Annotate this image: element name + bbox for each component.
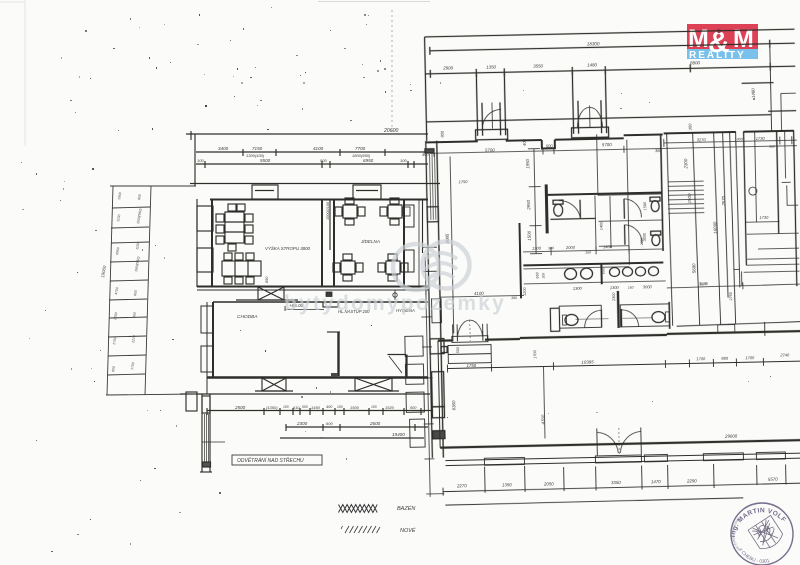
- svg-text:2500: 2500: [234, 405, 246, 410]
- lower wc band walls: [524, 281, 670, 332]
- svg-text:300: 300: [548, 246, 554, 250]
- svg-text:2740: 2740: [779, 352, 790, 357]
- svg-text:1580: 1580: [643, 201, 647, 210]
- svg-text:1730: 1730: [756, 136, 766, 141]
- svg-text:100: 100: [400, 158, 407, 163]
- svg-text:VÝŠKA STROPU 3800: VÝŠKA STROPU 3800: [265, 246, 311, 251]
- svg-text:880: 880: [721, 356, 729, 361]
- svg-text:2290: 2290: [686, 478, 697, 483]
- svg-text:2000: 2000: [640, 238, 644, 247]
- exterior steps X left: [255, 378, 293, 391]
- svg-text:20600: 20600: [383, 128, 399, 134]
- basins: [523, 263, 658, 286]
- svg-text:bytydomypozemky: bytydomypozemky: [284, 292, 506, 315]
- svg-text:2270: 2270: [456, 483, 467, 488]
- bottom windows row: [445, 452, 800, 466]
- rooms bottom wall: [197, 287, 428, 291]
- bottom dim line: [443, 460, 800, 496]
- svg-text:7700: 7700: [355, 146, 366, 151]
- hall dim line: [447, 357, 800, 372]
- svg-text:CHODBA: CHODBA: [237, 314, 258, 320]
- watermark: [284, 242, 506, 316]
- rooms top wall: [210, 199, 428, 201]
- wc middle block walls: [597, 133, 664, 265]
- wall face line: [426, 115, 771, 122]
- left boundary vertical: [425, 37, 427, 141]
- svg-text:M: M: [688, 25, 708, 53]
- top porch box left: [252, 185, 278, 199]
- main top wall: [426, 131, 794, 151]
- svg-text:4100: 4100: [313, 146, 324, 151]
- top porch box right: [353, 185, 381, 199]
- table B horizontal with chairs: [222, 253, 261, 284]
- svg-text:BAZÉN: BAZÉN: [397, 505, 415, 512]
- svg-text:1520: 1520: [385, 405, 395, 410]
- lower dim line right: [667, 281, 800, 291]
- bottom dim row 1: [207, 408, 433, 415]
- chodba interior partitions: [327, 332, 407, 377]
- top dim line right part: [664, 136, 797, 147]
- wc block top walls: [546, 182, 663, 233]
- jidelna table 3: [333, 254, 363, 281]
- top line: [425, 29, 795, 37]
- section mark: [393, 290, 397, 300]
- svg-text:16090: 16090: [712, 221, 717, 234]
- interior dim vertical x453: [450, 156, 454, 333]
- small boxes between plans: [405, 336, 425, 447]
- svg-text:500: 500: [456, 346, 460, 353]
- svg-text:2300: 2300: [683, 158, 688, 169]
- main middle wall y336: [438, 331, 800, 341]
- jidelna table 4: [378, 254, 408, 281]
- svg-text:6950: 6950: [363, 158, 374, 163]
- jidelna right wall: [404, 199, 414, 287]
- svg-text:1200: 1200: [523, 287, 527, 296]
- jidelna left wall: [333, 199, 335, 287]
- svg-text:400: 400: [522, 138, 527, 146]
- svg-text:300: 300: [687, 123, 692, 131]
- svg-text:7150: 7150: [252, 146, 263, 151]
- svg-text:100: 100: [371, 405, 377, 409]
- hall interior dim line: [430, 142, 797, 157]
- wc stalls right toilets: [624, 197, 661, 246]
- dim line between rooms: [329, 200, 331, 250]
- svg-text:1500: 1500: [350, 405, 360, 410]
- ramp rect in hall: [448, 345, 491, 364]
- svg-text:610: 610: [293, 406, 300, 410]
- svg-text:1700: 1700: [745, 355, 755, 360]
- svg-text:2600: 2600: [369, 421, 381, 426]
- svg-text:1480: 1480: [751, 88, 756, 98]
- bottom long line: [180, 393, 430, 395]
- svg-text:2300: 2300: [612, 292, 616, 302]
- svg-text:2000: 2000: [565, 245, 576, 250]
- faint dashed vertical line: [391, 10, 393, 133]
- table A vertical with chairs: [216, 204, 253, 251]
- svg-text:3550: 3550: [533, 63, 543, 68]
- svg-text:1480: 1480: [587, 62, 597, 67]
- svg-text:5700: 5700: [485, 147, 495, 152]
- svg-text:19400: 19400: [392, 432, 405, 437]
- svg-text:100: 100: [283, 405, 289, 409]
- svg-text:500: 500: [320, 158, 327, 163]
- svg-text:M: M: [733, 25, 754, 53]
- svg-text:1400: 1400: [599, 221, 603, 230]
- svg-text:1750: 1750: [459, 179, 469, 184]
- stairs treads: [668, 181, 705, 213]
- svg-text:2570: 2570: [721, 195, 726, 206]
- svg-text:400: 400: [422, 152, 430, 157]
- chodba top wall: [213, 301, 428, 303]
- right small mark: [731, 130, 800, 285]
- svg-text:1300: 1300: [573, 286, 583, 291]
- bottom center door arcs: [597, 427, 642, 455]
- right vertical dim 1480: [741, 46, 797, 132]
- right rooms: [741, 130, 800, 272]
- svg-text:3350: 3350: [611, 480, 621, 485]
- left vertical dim column: [421, 287, 444, 497]
- corridor walls: [519, 220, 664, 298]
- svg-text:4760: 4760: [540, 414, 545, 424]
- jidelna table 1: [335, 198, 365, 225]
- hall vertical dim: [543, 367, 545, 439]
- svg-text:400: 400: [326, 405, 333, 409]
- svg-text:1000/2100: 1000/2100: [326, 201, 330, 220]
- svg-text:8800: 8800: [690, 60, 700, 65]
- svg-text:650: 650: [535, 271, 539, 278]
- svg-text:6360: 6360: [451, 400, 456, 410]
- left wall of right plan: [421, 141, 450, 458]
- svg-text:1450: 1450: [311, 405, 321, 410]
- svg-text:2050: 2050: [543, 481, 554, 486]
- entry notch: [323, 302, 338, 307]
- svg-text:JÍDELNA: JÍDELNA: [360, 238, 380, 244]
- chodba left outer wall: [201, 302, 213, 394]
- interior dim vertical x537: [528, 149, 542, 254]
- faint scan edge artifacts: [0, 0, 430, 146]
- svg-text:1950: 1950: [525, 158, 530, 168]
- svg-text:ODVĚTRÁNÍ NAD STŘECHU: ODVĚTRÁNÍ NAD STŘECHU: [237, 456, 304, 464]
- svg-text:600: 600: [601, 267, 605, 274]
- right boundary vertical: [794, 130, 797, 286]
- wc room1: [550, 195, 611, 251]
- chodba bottom wall: [207, 376, 428, 378]
- jidelna table 2: [380, 198, 410, 225]
- svg-text:10395: 10395: [581, 359, 594, 364]
- exterior steps X right: [348, 378, 399, 391]
- svg-text:18300: 18300: [587, 41, 600, 46]
- svg-text:2300: 2300: [296, 421, 308, 426]
- svg-text:3270: 3270: [697, 137, 707, 142]
- svg-text:400: 400: [737, 137, 743, 141]
- svg-text:29000: 29000: [724, 433, 738, 438]
- bottom long line: [445, 498, 743, 505]
- CB mark: [326, 292, 332, 297]
- entrance door 2 double: [570, 71, 608, 138]
- bottom dim row 3: [280, 437, 424, 439]
- svg-text:1350: 1350: [486, 64, 496, 69]
- svg-text:2750: 2750: [729, 291, 733, 301]
- svg-text:100: 100: [337, 405, 343, 409]
- svg-text:360: 360: [511, 296, 517, 300]
- steps with X below rooms wall: [236, 287, 298, 300]
- left outer wall with windows: [197, 199, 213, 287]
- svg-text:1470: 1470: [651, 479, 661, 484]
- second dim line: [425, 62, 795, 78]
- room1 left wall: [211, 199, 213, 287]
- lower left wall with windows: [200, 394, 225, 472]
- svg-text:1700: 1700: [533, 349, 537, 358]
- 18300 dim line: [430, 39, 795, 55]
- svg-text:500: 500: [546, 143, 554, 148]
- svg-text:1500: 1500: [687, 193, 692, 203]
- M&M logo: [687, 24, 758, 61]
- svg-text:360: 360: [655, 148, 663, 153]
- left dimension ladder: [106, 186, 196, 395]
- svg-text:300: 300: [542, 273, 546, 279]
- svg-text:1350: 1350: [502, 482, 512, 487]
- svg-text:100: 100: [197, 158, 204, 163]
- bottom dim row 2: [286, 424, 428, 431]
- bottom wall: [438, 333, 800, 448]
- svg-text:2950: 2950: [526, 199, 531, 210]
- svg-text:150: 150: [628, 286, 634, 290]
- svg-text:3000: 3000: [643, 284, 653, 289]
- svg-text:1300: 1300: [532, 246, 542, 251]
- svg-text:5500: 5500: [260, 158, 271, 163]
- small rect left of lower wall: [186, 392, 197, 411]
- legend: [339, 505, 416, 535]
- left plan texts: [197, 128, 417, 437]
- dimension row 2: [196, 149, 428, 156]
- svg-text:1400: 1400: [603, 244, 613, 249]
- svg-text:5700: 5700: [602, 142, 612, 147]
- svg-text:3400: 3400: [218, 146, 229, 151]
- svg-text:1300: 1300: [610, 285, 620, 290]
- right plan texts: [420, 37, 793, 489]
- svg-text:2900: 2900: [442, 65, 453, 70]
- top dimension line 20600: [186, 131, 428, 186]
- svg-text:850: 850: [265, 276, 269, 283]
- svg-text:600: 600: [326, 421, 333, 426]
- svg-text:1500: 1500: [527, 230, 532, 240]
- left plan right boundary wall: [419, 199, 423, 287]
- svg-text:500: 500: [302, 405, 308, 409]
- svg-text:360: 360: [769, 145, 775, 149]
- svg-text:5680: 5680: [691, 263, 696, 273]
- svg-text:500: 500: [410, 406, 417, 410]
- svg-text:1750: 1750: [466, 363, 476, 368]
- dimension row 3: [196, 161, 428, 168]
- svg-text:NOVÉ: NOVÉ: [400, 527, 416, 534]
- svg-text:(1350): (1350): [266, 405, 278, 410]
- terrace edge lines: [190, 183, 440, 185]
- dim line above entry: [440, 292, 524, 301]
- room1 right wall: [321, 199, 323, 287]
- left entry double door: [451, 320, 487, 343]
- odvetrani box: [232, 455, 322, 465]
- svg-text:9,10: 9,10: [700, 282, 707, 286]
- svg-text:5570: 5570: [768, 477, 778, 482]
- svg-text:800: 800: [440, 130, 445, 138]
- svg-text:150: 150: [585, 250, 591, 254]
- svg-text:1700: 1700: [696, 356, 706, 361]
- stair shaft verticals: [667, 130, 800, 338]
- svg-text:1730: 1730: [759, 215, 769, 220]
- dim line y250: [523, 245, 663, 256]
- entrance door 1: [474, 73, 507, 140]
- level mark 86.00 underline: [285, 306, 324, 311]
